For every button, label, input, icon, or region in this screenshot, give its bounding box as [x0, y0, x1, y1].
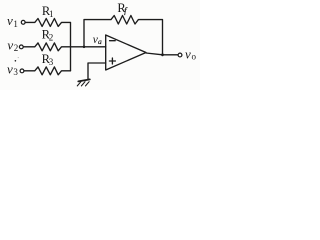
- svg-text:2: 2: [14, 43, 18, 53]
- svg-text:3: 3: [13, 67, 18, 77]
- svg-text:2: 2: [49, 32, 54, 42]
- svg-text:v: v: [185, 46, 191, 61]
- svg-text:a: a: [98, 37, 102, 46]
- svg-text:v: v: [7, 61, 13, 76]
- svg-text:3: 3: [49, 57, 54, 67]
- svg-text:v: v: [7, 13, 13, 28]
- svg-text:1: 1: [13, 19, 18, 29]
- svg-text:v: v: [7, 37, 13, 52]
- svg-text:o: o: [192, 52, 197, 62]
- svg-text:1: 1: [49, 9, 54, 19]
